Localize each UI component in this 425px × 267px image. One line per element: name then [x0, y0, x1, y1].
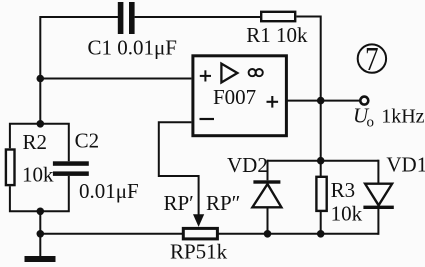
- wire loop bottom to ground rail: [39, 211, 41, 256]
- output terminal circle: [360, 97, 368, 105]
- node junction diode rail: [317, 157, 325, 165]
- svg-text:10k: 10k: [331, 201, 363, 225]
- resistor R1: [261, 12, 295, 21]
- svg-text:RP′: RP′: [164, 191, 194, 215]
- wiper arrowhead: [193, 214, 204, 227]
- wire noninverting input: [40, 78, 191, 80]
- svg-text:RP51k: RP51k: [170, 240, 228, 264]
- wire VD1 branch top: [377, 160, 379, 184]
- wire top horizontal C1 to R1: [135, 16, 261, 18]
- svg-text:10k: 10k: [22, 162, 54, 186]
- op-amp triangle symbol: [221, 64, 237, 83]
- op-amp output plus sign: [267, 96, 279, 108]
- op-amp infinity symbol: [249, 69, 263, 76]
- pin number 7 circle: [358, 41, 386, 78]
- wire R2C2 loop top: [10, 124, 69, 162]
- capacitor C1: [118, 2, 135, 34]
- node output junction: [317, 97, 325, 105]
- svg-text:1kHz: 1kHz: [381, 106, 424, 128]
- diode VD2: [252, 180, 281, 207]
- svg-text:o: o: [367, 114, 375, 130]
- wire VD2 branch top: [267, 160, 269, 181]
- wire R3 branch top: [320, 161, 322, 177]
- svg-text:0.01μF: 0.01μF: [79, 179, 139, 203]
- svg-text:C2: C2: [75, 129, 100, 153]
- wire inverting input to wiper: [159, 122, 199, 216]
- svg-text:7: 7: [365, 41, 379, 78]
- potentiometer RP: [183, 228, 217, 239]
- wire op-amp output: [287, 100, 321, 102]
- wire R2C2 loop bottom: [10, 176, 69, 211]
- op-amp plus input sign: [200, 70, 211, 81]
- ground: [25, 256, 56, 262]
- diode VD1: [363, 184, 393, 209]
- wire R3 branch bottom: [320, 211, 322, 234]
- node junction left at + input: [37, 75, 45, 83]
- op-amp U1 F007 box: [193, 56, 287, 136]
- resistor R2: [6, 150, 15, 186]
- node junction VD2 bottom: [264, 230, 272, 238]
- node junction ground rail: [37, 230, 45, 238]
- svg-text:RP″: RP″: [206, 191, 240, 215]
- wire VD1 branch bottom: [377, 209, 379, 235]
- wire bottom rail: [40, 233, 378, 235]
- svg-text:C1 0.01μF: C1 0.01μF: [88, 36, 177, 60]
- wire output to terminal: [321, 100, 360, 102]
- svg-text:R3: R3: [331, 178, 356, 202]
- svg-text:F007: F007: [213, 85, 256, 109]
- wire diode top rail: [268, 160, 379, 162]
- svg-text:R1 10k: R1 10k: [246, 23, 308, 47]
- wire R1 right to top-right corner: [297, 17, 321, 101]
- node junction R2C2 top: [37, 120, 45, 128]
- wire VD2 branch bottom: [267, 207, 269, 234]
- svg-text:VD2: VD2: [227, 153, 268, 177]
- capacitor C2: [53, 161, 89, 176]
- svg-text:VD1: VD1: [386, 152, 425, 176]
- node junction loop bottom: [37, 208, 45, 216]
- node junction R3 bottom: [317, 230, 325, 238]
- resistor R3: [316, 177, 326, 211]
- svg-text:R2: R2: [23, 130, 48, 154]
- wire top horizontal left of C1: [40, 16, 118, 18]
- wire left vertical main: [39, 16, 41, 124]
- op-amp minus input sign: [200, 118, 215, 120]
- wire output node down to diode rail: [320, 101, 322, 161]
